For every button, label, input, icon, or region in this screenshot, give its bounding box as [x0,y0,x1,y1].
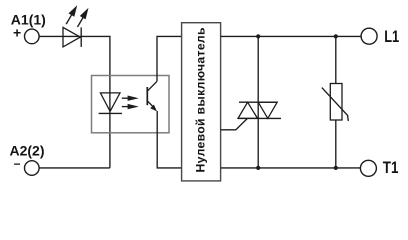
junction dot bottom varistor node [334,166,338,170]
junction dot top triac node [256,34,260,38]
wire varistor bottom [335,120,337,168]
svg-text:Нулевой выключатель: Нулевой выключатель [194,27,208,172]
svg-text:T1: T1 [383,159,399,177]
LED D1 input diode [63,27,81,47]
wire optocoupler cathode to A2 [39,167,110,169]
optocoupler U1 box [92,76,170,133]
phototransistor Q1 [147,81,157,111]
wire gate from zero-cross box to triac [221,119,248,130]
wire A1 through LED to optocoupler [39,36,110,168]
svg-text:+: + [13,25,21,41]
triac V1 [238,102,281,118]
svg-text:−: − [14,157,21,171]
terminal A1(1) [25,29,40,44]
wire collector to zero-cross box [157,36,182,81]
svg-text:A2(2): A2(2) [10,142,45,158]
LED emission arrow 2 [78,8,89,27]
wire triac vertical [257,36,259,168]
terminal L1 [361,28,377,44]
terminal T1 [360,160,376,176]
wire top rail to L1 [221,35,362,37]
zero-crossing switch box U2 [182,23,221,181]
varistor R1 [322,84,349,121]
optocoupler LED [99,93,122,114]
optocoupler light arrow 2 [122,104,139,109]
LED emission arrow 1 [66,5,77,24]
svg-text:L1: L1 [384,28,399,46]
wire emitter to zero-cross box [157,111,181,168]
junction dot top varistor node [334,34,338,38]
wire varistor top [335,36,337,83]
optocoupler light arrow 1 [122,96,139,101]
wire bottom rail to T1 [221,167,361,169]
junction dot bottom triac node [256,166,260,170]
terminal A2(2) [25,161,40,176]
